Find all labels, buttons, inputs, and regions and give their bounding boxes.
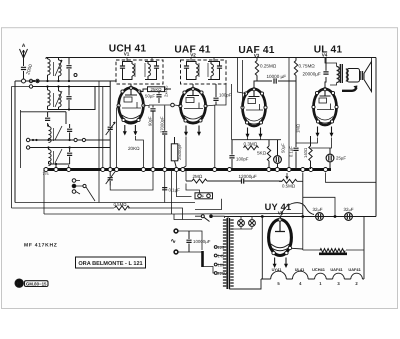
V3 cathode arrow b <box>259 128 263 139</box>
resistor 140ohm vertical <box>309 136 312 169</box>
wire screen feed <box>326 173 377 183</box>
input terminal t3 <box>72 190 76 194</box>
small circle node right <box>74 74 77 77</box>
svg-text:0.5MΩ: 0.5MΩ <box>282 184 296 189</box>
IF transformer T2 dashed box <box>116 60 163 84</box>
svg-text:UCH41: UCH41 <box>312 267 326 272</box>
terminal c <box>36 79 39 82</box>
input terminal t2 <box>72 184 76 188</box>
wire resistor block leads <box>303 217 364 251</box>
V4 grid coupling wire up <box>325 77 326 89</box>
capacitor osc grid <box>150 106 155 169</box>
wire 25K to V1 <box>140 89 172 92</box>
osc wire row y140 <box>30 139 110 141</box>
V2 anode wire to IFT <box>192 84 194 89</box>
wire UY41 left frame <box>261 217 263 280</box>
svg-text:25000pF: 25000pF <box>177 143 182 160</box>
output transformer secondary coil <box>346 69 348 81</box>
heater bump UAF41 b <box>351 273 363 279</box>
T3 internal wires <box>187 62 220 80</box>
svg-text:MF 417KHZ: MF 417KHZ <box>24 243 58 249</box>
wire osc left down <box>21 110 48 168</box>
arrow bus to 0.5M <box>286 173 288 179</box>
wire transformer top <box>225 216 229 218</box>
wire pickup diagonal <box>76 181 95 202</box>
wire mains to transformer <box>203 267 223 274</box>
wire diode detector <box>206 84 226 168</box>
power transformer secondary teeth <box>230 220 233 286</box>
osc top cap <box>45 112 66 127</box>
T2 secondary coil <box>145 61 150 80</box>
filter resistor block zigzag <box>319 249 347 254</box>
heater bump UAF41 a <box>333 273 345 279</box>
logo plate <box>25 281 49 287</box>
T3 capacitor C a <box>184 61 189 80</box>
T3 secondary coil <box>208 61 213 80</box>
wire V1 osc drop <box>135 136 143 168</box>
resistor 25K box <box>148 87 165 92</box>
input node dot <box>83 184 86 187</box>
wire det line <box>186 171 303 181</box>
wire V2 cathode drop <box>183 137 186 169</box>
tap terminal 145 <box>214 254 217 257</box>
svg-text:V1: V1 <box>124 52 130 57</box>
V3 cathode network top wire <box>232 139 282 141</box>
resistor 5K vertical <box>267 140 270 168</box>
wire return y202.5 <box>15 202 195 204</box>
electrolytic 50uF V3 <box>274 140 282 168</box>
wire return y214 <box>44 214 303 220</box>
IF transformer T3 dashed box <box>181 60 227 84</box>
osc cap lower <box>67 148 72 165</box>
svg-text:ORA BELMONTE - L 121: ORA BELMONTE - L 121 <box>78 261 142 267</box>
mains terminal b <box>174 250 178 254</box>
junction dots band2 <box>46 85 70 110</box>
wire right down leg <box>363 217 365 280</box>
svg-text:140Ω: 140Ω <box>303 148 308 158</box>
wire AVC drop a <box>102 87 104 169</box>
svg-text:1MΩ: 1MΩ <box>296 124 301 133</box>
capacitor 50uF <box>156 92 161 104</box>
T2 internal wires <box>123 62 157 80</box>
junction dots top row <box>33 80 70 82</box>
svg-text:UAF41: UAF41 <box>330 267 343 272</box>
left return wire x15 <box>15 81 22 203</box>
wire IF out vertical a <box>231 84 233 140</box>
logo circle <box>15 279 23 288</box>
antenna symbol <box>20 43 28 58</box>
power transformer core <box>227 218 229 289</box>
wire row y81 <box>26 80 117 82</box>
tube V4 UL41 envelope <box>312 88 338 125</box>
svg-text:90pF: 90pF <box>147 116 152 126</box>
wire bus drop b <box>164 171 166 203</box>
HT rail wire <box>225 216 377 218</box>
wire mixer grid <box>143 105 180 108</box>
osc coil L3 upper <box>49 125 63 143</box>
antenna coil L1 primary <box>48 58 51 82</box>
input terminal t1 <box>72 179 76 183</box>
capacitor 27000pF <box>162 132 167 134</box>
capacitor 0.1uF V4 <box>293 136 298 169</box>
svg-text:10000 µF: 10000 µF <box>267 74 287 79</box>
svg-text:V4: V4 <box>322 53 328 58</box>
wire UY41 cathode out <box>292 247 303 250</box>
svg-text:32µF: 32µF <box>344 207 354 212</box>
svg-text:UY41: UY41 <box>272 267 283 272</box>
wire bus drop c <box>172 171 192 214</box>
wire lamps top <box>241 217 252 220</box>
mains terminal a <box>174 229 178 233</box>
wire B+ vertical right <box>375 58 377 217</box>
T3 primary coil <box>196 61 199 80</box>
padder box 25000pF <box>171 137 178 168</box>
speaker field box <box>347 69 360 83</box>
junction circles on ground bus <box>44 168 328 172</box>
osc coil L3 lower <box>49 148 63 166</box>
V3 cathode arrow a <box>246 128 250 139</box>
svg-text:0.75MΩ: 0.75MΩ <box>299 64 316 69</box>
svg-text:∿: ∿ <box>171 238 176 245</box>
wire switch line <box>195 215 225 217</box>
svg-text:50µF: 50µF <box>281 143 286 153</box>
svg-text:25µF: 25µF <box>336 156 346 161</box>
svg-text:100pF: 100pF <box>236 157 249 162</box>
wire mains a <box>178 231 202 250</box>
speaker voice coil bars <box>361 71 363 80</box>
svg-text:12000µF: 12000µF <box>239 174 257 179</box>
resistor 0.5M b zigzag <box>279 179 297 183</box>
T3 capacitor C b <box>217 61 222 80</box>
svg-text:160: 160 <box>218 263 226 268</box>
tap terminal 125 <box>214 246 217 249</box>
svg-text:Fj: Fj <box>17 282 22 288</box>
mains switch <box>201 215 212 222</box>
resistor 0.25M vertical <box>255 58 258 82</box>
V4 cathode arrow a <box>316 127 320 138</box>
band2 coil L2 secondary with arrow <box>54 87 63 110</box>
heater chain wire <box>261 278 364 280</box>
terminal b <box>29 79 32 82</box>
wire row y86.5 <box>33 86 111 88</box>
volume pot 0.5M zigzag <box>115 206 130 210</box>
heater bump UCH41 <box>315 273 327 279</box>
resistor 0.3M zigzag <box>244 146 259 150</box>
wire V3 arrows to network <box>248 138 261 140</box>
wire phono to switch <box>195 199 222 210</box>
V1 anode wire to IFT <box>130 84 132 88</box>
antenna series capacitor 2000pF <box>21 58 26 79</box>
band2 trimmer C2 <box>66 87 71 110</box>
capacitor 12000pF <box>242 178 283 183</box>
electrolytic 32uF b <box>345 213 353 221</box>
dial lamp b <box>249 220 256 227</box>
tuning gang capacitor CV1 <box>106 81 116 168</box>
tube V3 UAF41 envelope <box>241 88 267 126</box>
svg-text:UL 41: UL 41 <box>314 45 343 56</box>
svg-text:20000µF: 20000µF <box>303 72 321 77</box>
wire lamps bottom <box>234 226 252 229</box>
T3 rail stubs <box>191 58 214 62</box>
antenna terminal <box>22 79 26 83</box>
V2 cathode arrow b <box>197 126 201 137</box>
T2 capacitor C b <box>154 61 159 80</box>
svg-text:V2: V2 <box>190 53 196 58</box>
V3 anode wire up <box>254 81 257 89</box>
svg-text:32µF: 32µF <box>313 207 323 212</box>
tube V2 UAF41 envelope <box>179 87 207 123</box>
osc row dots <box>32 139 71 149</box>
wire jack drop <box>186 184 200 193</box>
osc terminal mid <box>74 138 77 141</box>
tap terminal 160 <box>214 263 217 266</box>
trimmer capacitor C1 <box>66 58 71 82</box>
antenna coil L1 secondary with core arrow <box>54 58 63 82</box>
svg-text:A: A <box>22 43 26 49</box>
capacitor 0.1uF det <box>162 188 167 190</box>
wire B+ branch <box>302 173 304 217</box>
wire bottom band2 <box>48 87 96 110</box>
wire return y208 <box>12 208 183 220</box>
tube V5 UY41 envelope <box>269 218 292 256</box>
electrolytic 25uF V4 <box>326 148 334 169</box>
wire V4 cathode <box>296 138 332 149</box>
V2 cathode arrow a <box>184 126 188 137</box>
wire detector feed vertical <box>288 58 290 168</box>
capacitor 100pF V3 <box>229 140 234 168</box>
osc bottom dot <box>55 163 57 165</box>
speaker wire to rail <box>371 58 373 62</box>
capacitor 100pF at V2 <box>213 84 218 105</box>
osc terminal mid b <box>82 138 85 141</box>
power transformer primary teeth <box>223 220 226 286</box>
T2 rail stubs <box>127 58 152 62</box>
wire gang2 frame <box>110 171 153 190</box>
V5 cathode arrow a <box>273 258 277 269</box>
svg-text:UL41: UL41 <box>295 267 305 272</box>
grid node circle <box>171 103 175 107</box>
capacitor 20000pF coupling <box>323 58 328 75</box>
wire bus drop a <box>44 165 69 214</box>
hum coil arrow <box>342 88 357 91</box>
left return wire x11.5 <box>12 87 30 209</box>
svg-text:220V: 220V <box>217 271 227 276</box>
svg-text:50µF: 50µF <box>145 94 155 99</box>
osc terminal d1 <box>26 138 29 141</box>
wire taps <box>217 247 223 265</box>
mains switch bar <box>201 251 204 267</box>
svg-text:775: 775 <box>43 172 49 176</box>
resistor 2M <box>186 179 241 183</box>
osc cap upper <box>67 124 72 140</box>
svg-text:5KΩ: 5KΩ <box>257 151 267 156</box>
V4 anode wire to transformer <box>325 58 330 64</box>
svg-text:100pF: 100pF <box>219 93 232 98</box>
svg-text:125: 125 <box>218 245 226 250</box>
V1 cathode arrow b <box>133 125 137 136</box>
svg-text:25KΩ: 25KΩ <box>150 87 162 92</box>
osc wire row y147.5 <box>30 147 110 149</box>
output transformer core <box>340 64 342 83</box>
hum coil arrow head <box>354 86 357 90</box>
V1 cathode arrow a <box>123 125 127 136</box>
dial lamp a <box>238 220 245 227</box>
svg-text:2x455: 2x455 <box>164 85 169 97</box>
wire transformer bottom to heaters <box>229 279 261 289</box>
wire osc anode down <box>164 106 166 169</box>
resistor 0.75M vertical <box>294 58 297 137</box>
wire AVC vertical c <box>242 60 244 108</box>
wire mains b <box>178 251 202 253</box>
capacitor 10000pF coupling <box>257 78 296 83</box>
osc terminal d3 <box>26 146 29 149</box>
svg-text:0.5MΩ: 0.5MΩ <box>114 202 128 207</box>
V4 cathode arrow b <box>330 127 334 138</box>
svg-text:27000pF: 27000pF <box>160 116 165 133</box>
tap terminal 220V <box>214 272 217 275</box>
speaker cone <box>364 62 372 92</box>
tube V1 UCH41 envelope <box>117 86 145 123</box>
wire AVC drop b <box>98 81 100 203</box>
terminal row2 <box>29 85 32 88</box>
svg-text:20KΩ: 20KΩ <box>128 146 140 151</box>
svg-text:GM.80−15: GM.80−15 <box>26 281 47 286</box>
svg-text:0,1µF: 0,1µF <box>169 188 181 193</box>
output transformer primary coil <box>330 63 339 85</box>
heater bump UY41 <box>271 271 287 279</box>
V5 cathode arrow b <box>284 258 288 269</box>
svg-text:2MΩ: 2MΩ <box>193 174 203 179</box>
wire IF out vertical b <box>238 58 247 94</box>
junction dots HT <box>261 215 337 218</box>
svg-text:145: 145 <box>218 254 226 259</box>
band2 coil L2 primary <box>48 87 51 110</box>
wire mid branch <box>303 197 335 216</box>
ground bus (thick) <box>44 168 332 171</box>
wire V1 grid drop <box>117 106 119 168</box>
T2 primary coil <box>132 61 135 80</box>
svg-text:0.25MΩ: 0.25MΩ <box>260 64 277 69</box>
capacitor mains 10000pF <box>186 231 191 252</box>
svg-text:UAF41: UAF41 <box>348 267 361 272</box>
wire top B+ rail <box>46 57 376 59</box>
osc bottom wire to bus <box>49 164 70 168</box>
wire top left link <box>45 58 47 60</box>
electrolytic 32uF a <box>316 213 324 221</box>
tuning gang capacitor CV2 <box>106 171 116 186</box>
phono jack box <box>195 193 213 199</box>
heater bump UL41 <box>293 271 309 279</box>
T2 capacitor C a <box>120 61 125 80</box>
title box ORA BELMONTE <box>76 257 146 268</box>
wire UY41 plate curve <box>280 203 314 220</box>
